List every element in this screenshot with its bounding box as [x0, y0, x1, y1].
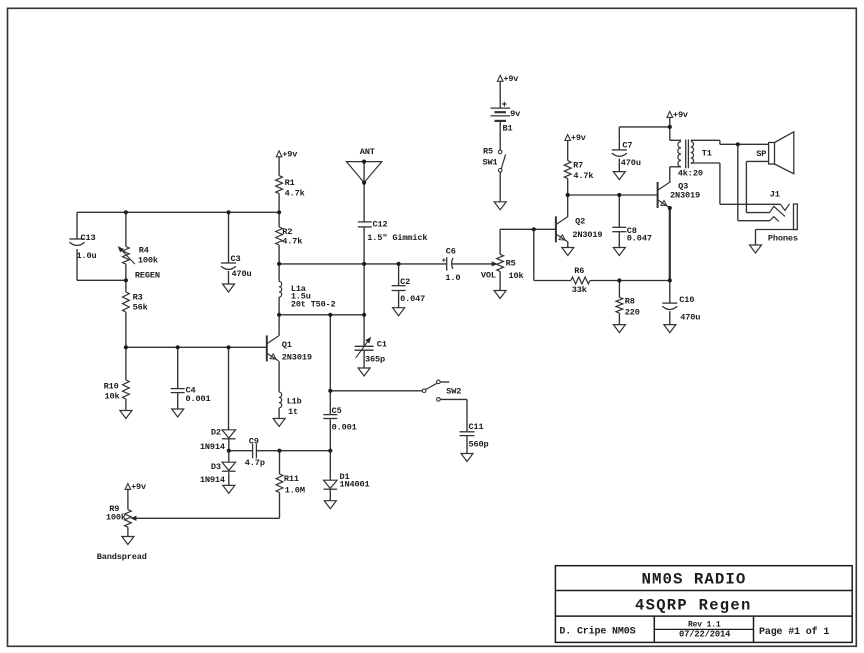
svg-text:NM0S RADIO: NM0S RADIO: [642, 570, 747, 588]
svg-text:1N4001: 1N4001: [340, 480, 370, 490]
svg-text:470u: 470u: [680, 313, 700, 323]
svg-text:Q1: Q1: [282, 340, 292, 350]
svg-text:+9v: +9v: [282, 149, 297, 159]
svg-text:0.047: 0.047: [627, 234, 652, 244]
svg-text:R6: R6: [574, 266, 584, 276]
svg-text:56k: 56k: [133, 303, 148, 313]
svg-text:10k: 10k: [509, 271, 524, 281]
svg-text:0.047: 0.047: [400, 294, 425, 304]
svg-text:VOL: VOL: [481, 271, 496, 281]
svg-text:D. Cripe NM0S: D. Cripe NM0S: [559, 626, 635, 638]
svg-text:REGEN: REGEN: [135, 271, 160, 281]
svg-text:C1: C1: [377, 340, 387, 350]
svg-text:0.001: 0.001: [332, 422, 357, 432]
svg-text:560p: 560p: [469, 439, 489, 449]
svg-text:9v: 9v: [510, 109, 520, 119]
svg-text:1t: 1t: [288, 407, 298, 417]
svg-text:SP: SP: [756, 149, 766, 159]
svg-text:+9v: +9v: [571, 133, 586, 143]
svg-text:1.0: 1.0: [445, 273, 460, 283]
svg-text:R8: R8: [625, 296, 635, 306]
svg-text:R7: R7: [573, 160, 583, 170]
svg-text:ANT: ANT: [360, 147, 375, 157]
svg-text:Bandspread: Bandspread: [97, 552, 147, 562]
svg-text:4.7k: 4.7k: [573, 171, 593, 181]
svg-text:R5: R5: [506, 259, 516, 269]
svg-text:1N914: 1N914: [200, 442, 225, 452]
svg-text:Rev 1.1: Rev 1.1: [688, 620, 721, 629]
svg-text:R4: R4: [139, 245, 149, 255]
svg-text:L1b: L1b: [287, 396, 302, 406]
svg-text:C12: C12: [373, 219, 388, 229]
svg-text:B1: B1: [503, 123, 513, 133]
svg-text:07/22/2014: 07/22/2014: [679, 629, 731, 639]
svg-text:D3: D3: [211, 462, 221, 472]
svg-text:+: +: [442, 257, 446, 265]
svg-text:C11: C11: [469, 422, 484, 432]
svg-text:C9: C9: [249, 437, 259, 447]
svg-text:470u: 470u: [621, 158, 641, 168]
svg-text:4.7k: 4.7k: [282, 236, 302, 246]
svg-text:SW2: SW2: [446, 387, 461, 397]
svg-text:2N3019: 2N3019: [670, 191, 700, 201]
svg-text:2N3019: 2N3019: [282, 352, 312, 362]
svg-text:C13: C13: [81, 233, 96, 243]
svg-text:2N3019: 2N3019: [572, 230, 602, 240]
svg-text:+9v: +9v: [503, 74, 518, 84]
svg-text:4SQRP Regen: 4SQRP Regen: [635, 596, 752, 614]
svg-text:C5: C5: [332, 406, 342, 416]
svg-text:C10: C10: [679, 295, 694, 305]
svg-text:4.7k: 4.7k: [285, 189, 305, 199]
svg-text:100k: 100k: [138, 256, 158, 266]
svg-text:C6: C6: [446, 247, 456, 257]
svg-text:10k: 10k: [105, 392, 120, 402]
svg-text:Q2: Q2: [575, 216, 585, 226]
svg-text:C7: C7: [622, 141, 632, 151]
svg-text:1N914: 1N914: [200, 475, 225, 485]
svg-text:R3: R3: [133, 293, 143, 303]
svg-text:+9v: +9v: [673, 110, 688, 120]
svg-text:470u: 470u: [232, 269, 252, 279]
svg-text:C2: C2: [400, 277, 410, 287]
svg-text:Page #1 of 1: Page #1 of 1: [759, 626, 829, 638]
svg-text:4.7p: 4.7p: [245, 458, 265, 468]
svg-text:SW1: SW1: [483, 158, 498, 168]
svg-text:J1: J1: [770, 189, 780, 199]
svg-text:220: 220: [625, 308, 640, 318]
svg-text:+9v: +9v: [131, 482, 146, 492]
svg-text:R5: R5: [483, 146, 493, 156]
svg-text:D2: D2: [211, 428, 221, 438]
svg-text:R1: R1: [285, 178, 295, 188]
svg-text:1.0M: 1.0M: [285, 485, 305, 495]
svg-text:365p: 365p: [365, 354, 385, 364]
svg-text:R11: R11: [284, 474, 299, 484]
svg-text:4k:20: 4k:20: [678, 169, 703, 179]
svg-text:1.0u: 1.0u: [77, 251, 97, 261]
svg-text:R10: R10: [104, 381, 119, 391]
svg-text:100k: 100k: [106, 513, 126, 523]
svg-text:T1: T1: [702, 148, 712, 158]
svg-text:C3: C3: [231, 254, 241, 264]
svg-text:+: +: [502, 99, 508, 110]
svg-text:0.001: 0.001: [186, 394, 211, 404]
svg-text:20t T50-2: 20t T50-2: [291, 299, 336, 309]
svg-text:1.5" Gimmick: 1.5" Gimmick: [367, 233, 427, 243]
svg-text:33k: 33k: [572, 285, 587, 295]
svg-text:Phones: Phones: [768, 233, 798, 243]
